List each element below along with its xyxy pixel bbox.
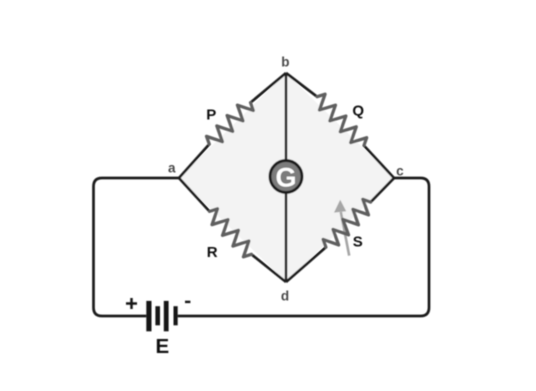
resistor P	[207, 103, 254, 145]
wire d-c segments	[286, 247, 326, 282]
wire b-c segments	[286, 73, 317, 97]
svg-text:c: c	[396, 163, 404, 178]
svg-text:P: P	[206, 107, 216, 124]
svg-text:d: d	[281, 289, 289, 304]
galvanometer G	[270, 161, 302, 193]
variable-resistor arrow on S	[334, 200, 349, 256]
wire b-d (galvanometer branch)	[285, 73, 288, 282]
battery E plate (long, +)	[146, 301, 151, 331]
battery - sign	[185, 301, 190, 303]
svg-text:a: a	[168, 161, 176, 176]
battery + sign	[126, 298, 137, 309]
battery E plate (long)	[164, 301, 169, 331]
wire a-d segments	[179, 178, 210, 211]
bridge diamond (nodes a-b-c-d)	[179, 73, 394, 282]
svg-text:b: b	[281, 54, 289, 69]
battery E plate (short, -)	[174, 306, 178, 325]
wire c to battery - (right loop)	[178, 178, 429, 316]
wire a to battery + (left loop)	[94, 178, 180, 316]
battery E plate (short)	[155, 306, 160, 325]
wire a-b segments	[179, 144, 209, 178]
resistor Q	[317, 94, 367, 145]
resistor R	[210, 209, 252, 257]
svg-text:E: E	[156, 335, 170, 358]
svg-text:R: R	[207, 244, 218, 261]
svg-text:Q: Q	[352, 103, 364, 120]
svg-text:S: S	[353, 233, 363, 250]
svg-text:G: G	[275, 162, 296, 192]
resistor S (variable)	[323, 199, 371, 247]
